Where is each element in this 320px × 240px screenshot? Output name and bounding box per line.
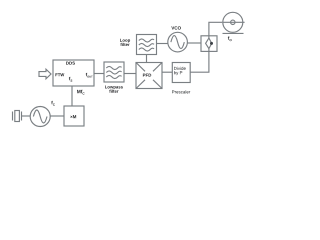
splitter SP1 [201,36,217,52]
wire VCO to splitter [188,42,201,44]
label Lowpass [105,85,123,89]
multiplier xM [64,106,84,126]
lowpass filter FL1 [104,62,124,82]
PFD U2 [136,63,162,89]
label f_OUT pin [86,73,93,78]
wire PFD to loop filter [146,55,148,63]
label filter 1 [109,90,118,93]
label by P [174,71,182,75]
label Prescaler [172,90,190,93]
wire oscillator to multiplier [50,115,64,117]
label PFD [143,74,151,77]
prescaler divide-by-P U3 [172,63,190,83]
wire splitter to prescaler [190,51,209,72]
wire multiplier to DDS [71,86,73,106]
oscillator OSC1 [30,107,50,127]
loop filter FL2 [137,35,157,55]
wire splitter to output connector [209,22,222,36]
label DDS [66,62,75,65]
label Divide [174,67,186,70]
label VCO [171,26,181,29]
wire prescaler to PFD [162,71,172,73]
wire crystal to oscillator [22,115,31,117]
label f_O node [228,36,232,41]
DDS U1 [53,60,94,86]
label f_S pin [69,77,72,82]
crystal Y1 [13,111,22,122]
label f_C node [51,101,55,106]
label xM [70,115,76,118]
label FTW pin [55,73,64,76]
label filter 2 [120,43,129,46]
label Loop [120,39,130,43]
output connector J1 [223,12,245,33]
VCO OSC2 [168,32,188,52]
label Mf_C node [77,90,84,95]
wire lowpass filter to PFD [124,73,136,75]
wire DDS to lowpass filter [94,73,104,75]
FTW input arrow [39,69,51,79]
wire loop filter to VCO [157,43,168,45]
